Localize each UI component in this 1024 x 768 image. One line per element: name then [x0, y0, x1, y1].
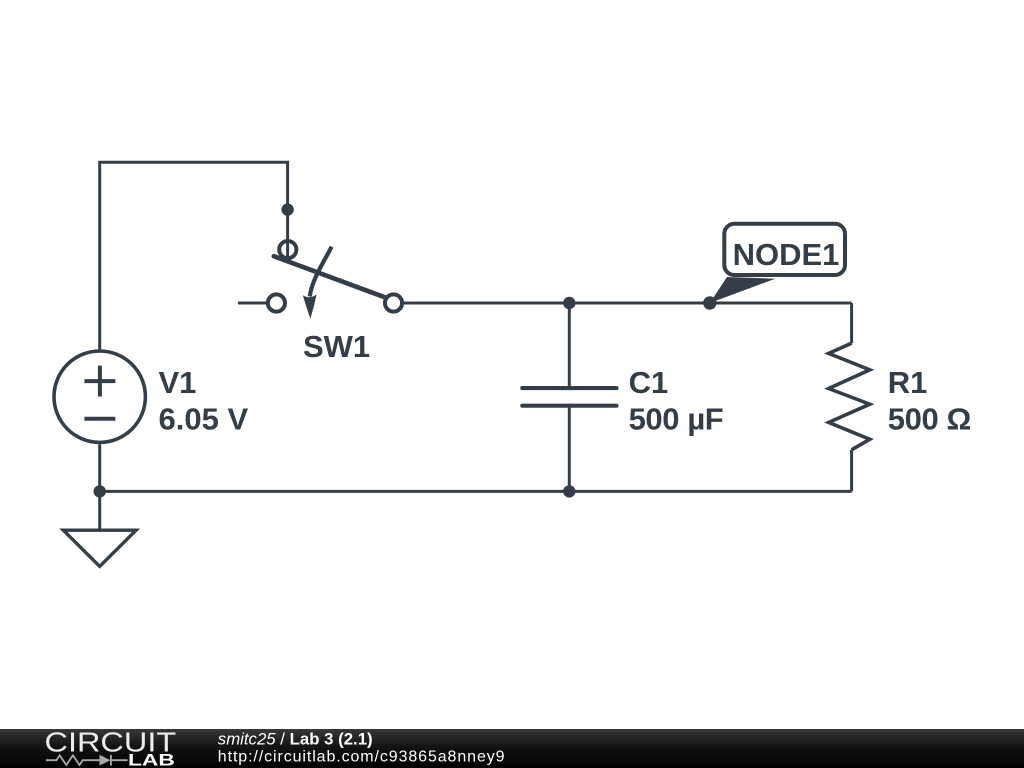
- arrow head: [303, 294, 317, 318]
- wire switch left stub: [239, 302, 267, 305]
- svg-text:500 µF: 500 µF: [629, 401, 724, 436]
- lever: [274, 256, 390, 299]
- svg-text:500 Ω: 500 Ω: [888, 401, 971, 436]
- label V1 6.05 V: [159, 365, 249, 437]
- junction dot above switch: [281, 203, 293, 215]
- svg-text:LAB: LAB: [128, 751, 175, 768]
- wire C1 bottom lead: [568, 406, 571, 492]
- switch SW1: [268, 203, 402, 318]
- wire main horizontal node wire: [403, 302, 852, 305]
- junction dot C1 top: [563, 297, 575, 309]
- svg-text:http://circuitlab.com/c93865a8: http://circuitlab.com/c93865a8nney9: [218, 749, 506, 766]
- capacitor C1: [522, 388, 616, 406]
- right throw terminal: [385, 294, 402, 311]
- wire R1 bottom lead: [850, 450, 853, 492]
- resistor R1: [829, 343, 870, 450]
- svg-text:6.05 V: 6.05 V: [159, 401, 249, 436]
- junction dot C1 bottom: [563, 485, 575, 497]
- label C1 500 uF: [629, 365, 724, 437]
- node NODE1 callout box: [724, 224, 845, 275]
- label R1 500 ohm: [888, 365, 971, 437]
- wire C1 top lead: [568, 303, 571, 388]
- svg-text:C1: C1: [629, 365, 669, 400]
- voltage source V1: [54, 351, 145, 442]
- wire top horizontal from V1 to switch: [100, 162, 288, 349]
- logo squiggle (resistor + diode): [46, 755, 128, 766]
- wire right vertical to R1 top: [850, 303, 853, 343]
- motion arc: [310, 247, 332, 297]
- svg-text:NODE1: NODE1: [733, 237, 840, 272]
- svg-text:SW1: SW1: [303, 329, 370, 364]
- ground: [63, 530, 136, 566]
- logo diode triangle: [100, 755, 111, 766]
- junction dot V1 bottom: [94, 485, 106, 497]
- svg-text:R1: R1: [888, 365, 928, 400]
- node NODE1 dot: [703, 296, 716, 309]
- wire bottom horizontal: [100, 490, 852, 493]
- left throw terminal: [268, 294, 285, 311]
- wire V1 bottom to ground: [98, 444, 101, 530]
- svg-text:smitc25 / Lab 3 (2.1): smitc25 / Lab 3 (2.1): [218, 730, 373, 749]
- node NODE1 callout tail: [710, 277, 776, 303]
- pole terminal circle: [279, 241, 296, 258]
- svg-text:V1: V1: [159, 365, 197, 400]
